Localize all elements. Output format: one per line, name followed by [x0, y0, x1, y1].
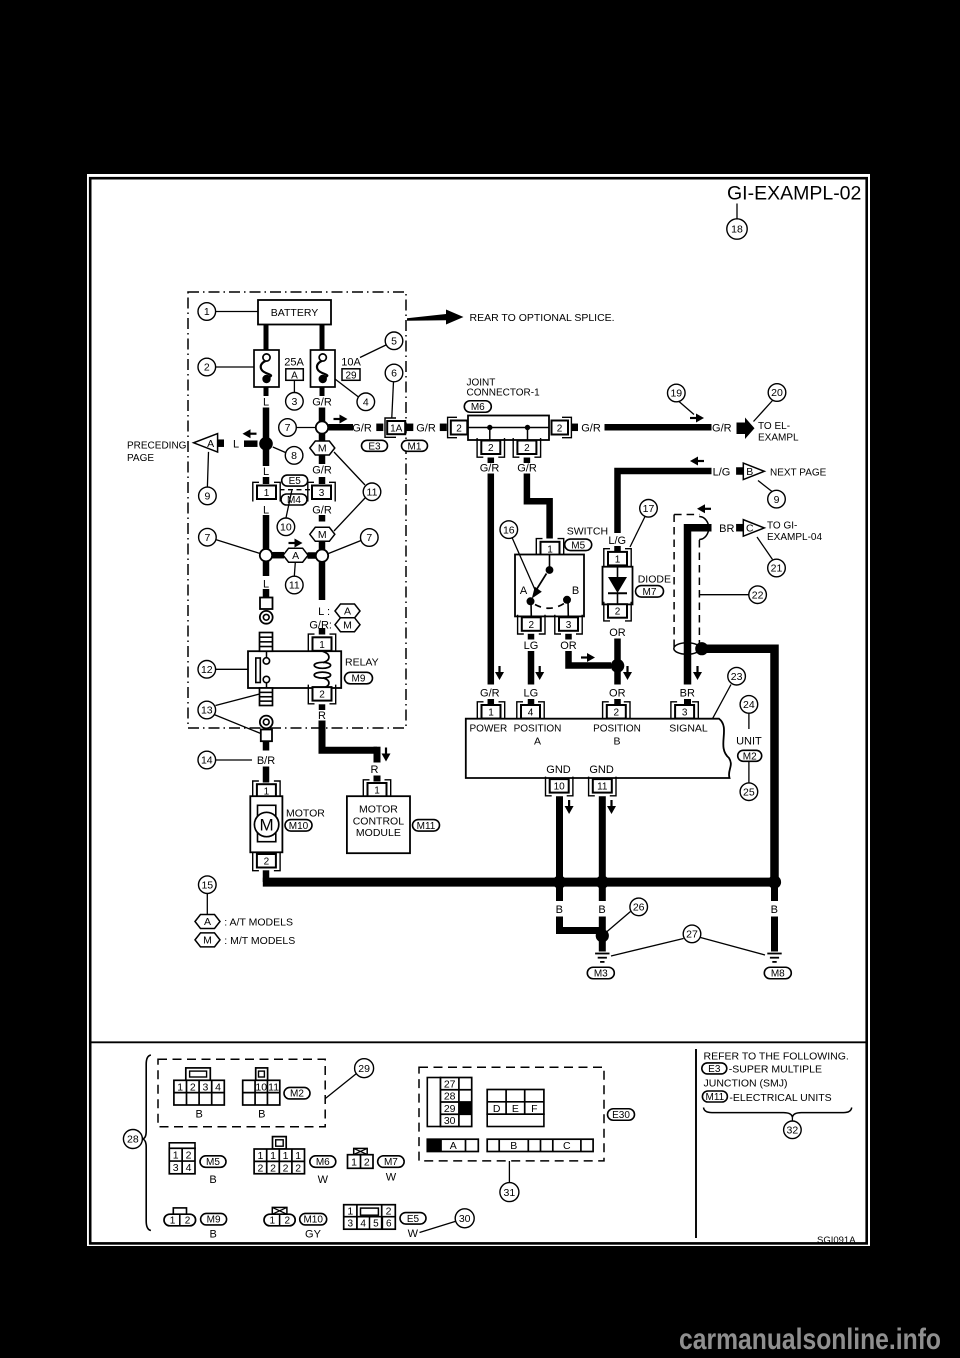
svg-text:B: B	[771, 904, 778, 916]
oval M9 view label	[201, 1213, 227, 1225]
svg-text:2: 2	[204, 362, 210, 374]
svg-text:1: 1	[204, 306, 210, 318]
diode symbol	[608, 567, 627, 605]
callout 25 line	[748, 762, 750, 784]
connector pin 1 (E5/M4)	[253, 482, 280, 501]
bus junction dot 1	[553, 876, 566, 889]
svg-text:G/R: G/R	[517, 463, 537, 475]
oval connector M3	[587, 967, 614, 979]
callout 1	[198, 303, 216, 321]
svg-text:GY: GY	[305, 1229, 322, 1241]
wire G/R column 2 elbow	[527, 474, 550, 539]
callout 10 leader	[286, 491, 292, 518]
callout 12 leader	[216, 668, 248, 670]
M7 connector view grid	[348, 1155, 374, 1169]
E30 dashed group box	[419, 1067, 604, 1161]
svg-text:11: 11	[268, 1081, 279, 1093]
callout 28	[123, 1130, 142, 1149]
svg-text:B/R: B/R	[257, 755, 275, 767]
wire G/R stub to unit pin	[488, 699, 495, 705]
arrow left to preceding page	[243, 429, 257, 438]
hexagon M legend	[195, 933, 220, 947]
M2 connector view A grid	[174, 1080, 224, 1105]
svg-text:LG: LG	[524, 640, 539, 652]
svg-text:TO EL-: TO EL-	[758, 421, 790, 432]
svg-text:2: 2	[270, 1162, 276, 1174]
bus junction dot 2	[596, 876, 609, 889]
svg-text:A: A	[204, 916, 211, 928]
callout 7 (right)	[361, 529, 379, 547]
arrow down beside BR wire	[693, 666, 702, 680]
splice open circle node G/R 2	[316, 550, 328, 562]
dashed separator E5/M4	[280, 489, 311, 491]
oval M7 view label	[378, 1156, 405, 1168]
svg-text:L: L	[263, 466, 269, 478]
svg-text:REFER TO THE FOLLOWING.: REFER TO THE FOLLOWING.	[704, 1051, 849, 1063]
hexagon M marker upper	[310, 441, 335, 455]
oval connector E3	[362, 440, 388, 452]
svg-text:G/R: G/R	[480, 463, 500, 475]
svg-text:M5: M5	[206, 1157, 220, 1168]
callout 4	[357, 393, 375, 411]
svg-text:-ELECTRICAL UNITS: -ELECTRICAL UNITS	[729, 1092, 831, 1104]
junction dot OR	[611, 659, 625, 673]
callout 24	[740, 696, 758, 714]
svg-text:POWER: POWER	[470, 724, 508, 735]
svg-text:3: 3	[682, 707, 688, 718]
svg-text:B: B	[746, 466, 753, 478]
svg-text:R: R	[318, 710, 326, 722]
svg-text:JUNCTION (SMJ): JUNCTION (SMJ)	[704, 1078, 788, 1090]
switch contact B dot	[563, 596, 571, 604]
stub before triangle B	[736, 467, 743, 475]
svg-text:M6: M6	[471, 402, 485, 413]
svg-text:1: 1	[615, 554, 621, 565]
callout 26	[630, 898, 648, 916]
callout 32 brace	[704, 1108, 852, 1118]
svg-text:A: A	[534, 736, 541, 748]
callout 5 leader	[360, 345, 387, 358]
svg-text:25A: 25A	[284, 357, 304, 369]
svg-text:1: 1	[170, 1216, 176, 1227]
svg-text:M: M	[318, 443, 327, 455]
relay pin 2 connector	[308, 685, 335, 704]
callout 17 leader	[630, 517, 645, 548]
motor pin 1 connector	[253, 781, 280, 800]
callout 31	[500, 1183, 519, 1202]
wire G/R stub below right pin	[524, 458, 531, 464]
svg-text:4: 4	[363, 397, 369, 409]
arrow down beside G/R wire	[495, 666, 504, 680]
svg-text:M3: M3	[594, 969, 608, 980]
diode pin 2 connector	[604, 602, 631, 621]
svg-text:3: 3	[291, 396, 297, 408]
svg-text:: A/T MODELS: : A/T MODELS	[224, 917, 293, 929]
callout 8 leader	[273, 447, 286, 453]
svg-text:TO GI-: TO GI-	[767, 521, 797, 532]
wire R stub below relay	[319, 704, 326, 710]
svg-text:6: 6	[391, 368, 397, 380]
svg-text:26: 26	[633, 902, 645, 914]
svg-text:M: M	[318, 529, 327, 541]
relay M9 box	[248, 651, 341, 688]
battery terminal box	[260, 598, 273, 610]
wire L stub	[263, 477, 270, 484]
callout 2	[198, 358, 216, 376]
joint connector internal node 1	[487, 425, 492, 440]
svg-text:12: 12	[201, 664, 213, 676]
svg-text:2: 2	[615, 607, 621, 618]
joint connector internal node 2	[525, 425, 530, 440]
switch blade with arrowhead	[532, 574, 547, 599]
callout 14	[198, 751, 216, 769]
wire G/R stub	[319, 477, 326, 484]
svg-text:M: M	[203, 935, 212, 947]
wire G/R to splice 2	[319, 541, 326, 550]
oval connector M11	[413, 820, 440, 832]
page ref solid arrow to EL-EXAMPL	[737, 418, 755, 440]
callout 22 leader	[699, 594, 748, 596]
small arrow right (19)	[690, 414, 704, 423]
svg-text:5: 5	[373, 1219, 379, 1230]
M5 connector view	[169, 1143, 195, 1149]
shield drain junction dot	[695, 642, 708, 655]
svg-text:M2: M2	[743, 751, 757, 762]
svg-text:G/R: G/R	[312, 465, 332, 477]
svg-text:M7: M7	[384, 1157, 398, 1168]
svg-text:POSITION: POSITION	[514, 724, 562, 735]
arrow down beside GND-10 wire	[565, 800, 574, 814]
relay ground strap lower	[260, 688, 273, 706]
callout 15 leader	[206, 894, 208, 915]
oval connector M8	[764, 967, 791, 979]
svg-text:PRECEDING: PRECEDING	[127, 441, 187, 452]
wire G/R column 1 down to unit	[488, 474, 495, 685]
arrow right (OR branch)	[581, 653, 595, 662]
svg-text:: M/T MODELS: : M/T MODELS	[224, 935, 295, 947]
svg-text:1: 1	[374, 785, 380, 796]
callout 21	[768, 559, 786, 577]
svg-text:17: 17	[643, 503, 655, 515]
svg-text:C: C	[746, 523, 754, 535]
svg-text:31: 31	[504, 1187, 516, 1199]
oval M6 view label	[310, 1156, 336, 1168]
callout 4 leader	[335, 379, 359, 397]
wire GND-10 down to bus	[556, 796, 563, 882]
shield top ellipse arc	[699, 517, 709, 540]
callout 20 leader	[754, 401, 773, 422]
M7 connector view bowtie	[354, 1148, 368, 1154]
svg-text:3: 3	[173, 1162, 179, 1174]
E30 view bottom row A	[427, 1139, 478, 1152]
svg-text:REAR TO OPTIONAL SPLICE.: REAR TO OPTIONAL SPLICE.	[470, 312, 615, 324]
wire L dash to preceding page	[244, 440, 258, 447]
svg-text:BR: BR	[680, 688, 695, 700]
svg-text:29: 29	[345, 370, 357, 381]
ground symbol M8	[767, 954, 781, 962]
callout 3	[286, 393, 304, 411]
switch pin 2 connector	[518, 615, 545, 634]
M2 connector view A tab	[186, 1068, 211, 1080]
svg-text:1: 1	[488, 707, 494, 718]
svg-text:19: 19	[670, 388, 682, 400]
svg-text:1: 1	[270, 1150, 276, 1162]
svg-text:L: L	[233, 439, 239, 451]
joint connector bottom pin 2 left	[477, 438, 504, 457]
svg-text:1: 1	[351, 1156, 357, 1168]
callout 1 leader	[216, 311, 258, 313]
M10 connector view	[264, 1207, 295, 1226]
svg-text:L/G: L/G	[608, 535, 626, 547]
joint connector left pin 2	[448, 417, 468, 437]
svg-text:1: 1	[283, 1150, 289, 1162]
svg-text:29: 29	[444, 1103, 456, 1115]
callout 3 leader	[293, 381, 295, 394]
svg-text:L: L	[263, 397, 269, 409]
callout 8	[285, 447, 303, 465]
callout 5	[385, 332, 403, 350]
switch pivot wire	[549, 555, 551, 567]
joint connector body	[468, 416, 549, 441]
callout 9	[199, 487, 217, 505]
MCM pin 1 connector	[363, 780, 390, 799]
junction dot node L	[259, 437, 273, 451]
callout 11 (right)	[363, 483, 381, 501]
callout 25	[740, 783, 758, 801]
svg-text:27: 27	[686, 929, 698, 941]
svg-text:2: 2	[529, 620, 535, 631]
unit pin 10 connector	[546, 777, 573, 796]
wire L below fuse F1	[264, 387, 269, 396]
callout 19 leader	[679, 402, 694, 415]
unit M2 box	[466, 719, 731, 778]
callout 27	[683, 925, 701, 943]
callout 18	[727, 219, 747, 239]
oval connector M6	[464, 401, 491, 413]
svg-text:G/R: G/R	[480, 688, 500, 700]
switch contact A dot	[527, 597, 535, 605]
svg-text:M11: M11	[417, 821, 436, 832]
relay ground strap upper	[260, 633, 273, 652]
svg-text:9: 9	[204, 491, 210, 503]
svg-text:OR: OR	[560, 640, 577, 652]
svg-text:SGI091A: SGI091A	[817, 1235, 856, 1246]
svg-text:M11: M11	[706, 1092, 725, 1103]
svg-text:4: 4	[528, 707, 534, 718]
svg-text:7: 7	[366, 532, 372, 544]
fuse F2 rating box 29	[342, 369, 360, 382]
svg-text:E5: E5	[289, 476, 302, 487]
E30 view middle grid DEF	[487, 1090, 544, 1115]
callout 2 leader	[216, 366, 254, 368]
svg-text:32: 32	[787, 1125, 799, 1137]
dash-dot harness boundary box	[188, 292, 406, 728]
svg-text:MODULE: MODULE	[356, 827, 401, 839]
svg-text:F: F	[531, 1103, 537, 1115]
wire G/R below pin 3	[319, 515, 326, 522]
svg-text:BATTERY: BATTERY	[271, 307, 318, 319]
svg-text:BR: BR	[719, 523, 734, 535]
arrow down beside R wire	[382, 748, 391, 762]
wire LG stub	[528, 634, 535, 640]
callout 19	[668, 384, 686, 402]
stub right of joint connector	[571, 424, 578, 432]
svg-text:B: B	[572, 585, 579, 597]
svg-text:G/R: G/R	[352, 423, 372, 435]
ground symbol M3	[595, 954, 609, 962]
relay contact upper	[263, 651, 269, 664]
svg-text:SWITCH: SWITCH	[567, 525, 608, 537]
svg-text:RELAY: RELAY	[345, 657, 379, 669]
refer-section vertical divider	[695, 1049, 697, 1238]
svg-text:2: 2	[364, 1156, 370, 1168]
svg-text:1: 1	[295, 1150, 301, 1162]
callout 9 (right)	[768, 490, 786, 508]
svg-text:NEXT PAGE: NEXT PAGE	[770, 467, 827, 478]
bus junction dot 3	[768, 876, 781, 889]
svg-text:B: B	[210, 1229, 217, 1241]
hexagon A marker wire-color	[335, 604, 360, 618]
callout 29 leader	[325, 1074, 356, 1099]
stub left of joint connector	[440, 424, 447, 432]
wire B left segment	[556, 882, 563, 901]
svg-text:15: 15	[201, 879, 213, 891]
svg-text:OR: OR	[609, 688, 626, 700]
motor pin 2 connector	[253, 852, 280, 871]
wire L to connector E5-M4 pin 1	[263, 444, 270, 466]
svg-text:R: R	[371, 764, 379, 776]
svg-text:E5: E5	[407, 1214, 420, 1225]
svg-text:2: 2	[285, 1216, 291, 1227]
arrow down beside GND-11 wire	[607, 800, 616, 814]
svg-text:1: 1	[257, 1150, 263, 1162]
wire G/R splice to label	[319, 434, 326, 465]
svg-text:29: 29	[358, 1063, 370, 1075]
switch contact B lead	[567, 600, 569, 617]
svg-text:1: 1	[270, 1216, 276, 1227]
wire L/G horizontal	[618, 471, 712, 533]
white page	[87, 174, 870, 1246]
hexagon A marker crossover	[283, 548, 308, 562]
shield bottom ellipse	[674, 643, 700, 655]
SMJ connector 1A	[385, 418, 405, 437]
svg-text:1A: 1A	[390, 423, 403, 434]
svg-text:2: 2	[386, 1206, 392, 1218]
callout 7 (left)	[199, 528, 217, 546]
M2 connector view B grid	[243, 1080, 280, 1105]
wire G/R down to relay	[319, 562, 326, 600]
callout 12	[198, 661, 216, 679]
M2 dashed group box	[158, 1059, 325, 1127]
svg-text:24: 24	[743, 699, 755, 711]
wire B right lower	[771, 917, 778, 952]
svg-text:22: 22	[752, 589, 764, 601]
relay contact lower	[263, 676, 269, 688]
svg-text:10: 10	[280, 522, 292, 534]
svg-text:9: 9	[774, 494, 780, 506]
E5 connector view	[344, 1205, 396, 1230]
svg-text:E: E	[512, 1103, 519, 1115]
svg-text:W: W	[386, 1171, 397, 1183]
svg-text:6: 6	[386, 1219, 392, 1230]
svg-text:A: A	[291, 370, 298, 381]
M6 connector view tab	[273, 1137, 287, 1149]
callout 11 (lower)	[286, 576, 304, 594]
wire GND-11 down to bus	[599, 796, 606, 882]
wire G/R to splice	[319, 408, 326, 422]
callout 32 leader	[791, 1117, 793, 1122]
hexagon M marker lower	[310, 527, 335, 541]
svg-text:18: 18	[731, 224, 743, 236]
svg-text:MOTOR: MOTOR	[286, 808, 325, 820]
svg-text:D: D	[493, 1103, 501, 1115]
callout 20	[768, 384, 786, 402]
callout 30	[455, 1209, 474, 1228]
oval connector M5	[565, 539, 592, 551]
callout 21 leader	[757, 537, 773, 560]
callout 16	[500, 521, 518, 539]
wire R horizontal	[319, 747, 378, 754]
svg-text:L: L	[263, 505, 269, 517]
tapered arrow rear-to-optional-splice	[407, 310, 464, 325]
wire B left elbow	[560, 917, 603, 931]
wire splice to hexagon A left	[272, 552, 284, 559]
svg-text:4: 4	[360, 1219, 366, 1230]
wire G/R stub below left pin	[488, 458, 495, 464]
unit pin 1 connector	[477, 702, 504, 721]
callout 18 leader	[736, 204, 738, 220]
fuse F1 rating box A	[286, 369, 304, 382]
callout 27 leader right	[701, 938, 766, 956]
wire battery to fuse F2	[320, 325, 325, 351]
wire B/R from relay terminal	[263, 741, 270, 750]
svg-text:14: 14	[201, 755, 213, 767]
wire G/R to EL-EXAMPL	[605, 424, 712, 431]
wire hexagon A to splice right	[308, 552, 317, 559]
unit pin 11 connector	[589, 777, 616, 796]
svg-text:B: B	[510, 1140, 517, 1152]
motor inner frame	[258, 805, 276, 841]
svg-text:B: B	[556, 904, 563, 916]
E30 view left grid	[427, 1078, 440, 1127]
relay coil	[314, 651, 330, 688]
oval connector M9	[345, 672, 373, 684]
wire OR from diode	[614, 639, 621, 685]
callout 7 leader (left)	[216, 540, 261, 554]
svg-text:W: W	[318, 1174, 329, 1186]
svg-text:5: 5	[391, 336, 397, 348]
svg-text:EXAMPL-04: EXAMPL-04	[767, 532, 822, 543]
callout 7 (top)	[279, 419, 297, 437]
svg-text:11: 11	[289, 580, 300, 592]
diagram border frame	[90, 178, 867, 1243]
svg-text:3: 3	[202, 1081, 208, 1093]
callout 7 leader (top)	[296, 427, 316, 429]
wire L/G stub to diode	[614, 546, 621, 552]
callout 11 leader lower	[334, 498, 365, 531]
svg-text:A: A	[450, 1140, 457, 1152]
svg-text:3: 3	[566, 620, 572, 631]
svg-text:4: 4	[186, 1162, 192, 1174]
svg-text:1: 1	[173, 1149, 179, 1161]
svg-text:10A: 10A	[341, 356, 361, 368]
splice open circle node L	[260, 549, 272, 561]
svg-text:11: 11	[597, 782, 608, 793]
ground bus wire	[263, 878, 779, 887]
svg-text:carmanualsonline.info: carmanualsonline.info	[679, 1323, 941, 1356]
callout 7 leader (right)	[329, 541, 362, 554]
svg-text:20: 20	[771, 387, 783, 399]
